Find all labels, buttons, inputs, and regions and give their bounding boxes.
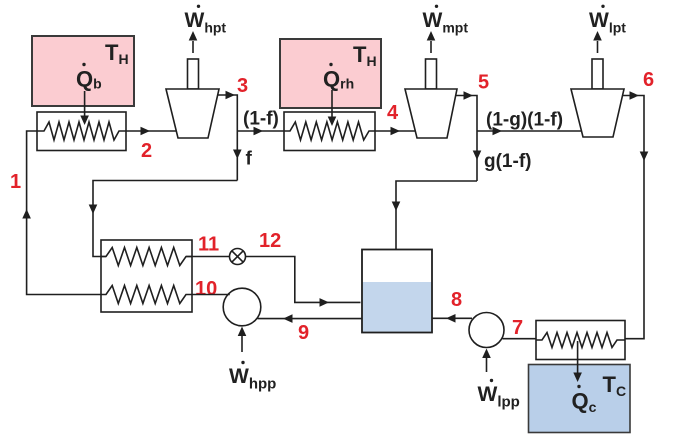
label (1-f) <box>243 109 279 130</box>
label (1-g)(1-f) <box>486 110 563 131</box>
label f <box>246 149 253 170</box>
arrow g(1-f) extraction downward <box>473 151 482 161</box>
svg-text:8: 8 <box>451 289 462 311</box>
arrow Qrh into reheater HX <box>328 90 337 126</box>
svg-text:f: f <box>246 149 253 170</box>
turbine LPT <box>571 59 624 137</box>
arrow f extraction downward <box>233 150 242 160</box>
svg-text:Whpt: Whpt <box>185 9 227 36</box>
wire state 3 (HPT exit) <box>218 91 238 181</box>
turbine MPT <box>405 59 457 138</box>
label Wlpt with dot <box>589 5 626 36</box>
wire (1-f) branch to reheater <box>237 127 284 136</box>
svg-text:11: 11 <box>198 234 219 256</box>
wire state 6 (LPT exit) <box>623 91 649 339</box>
label Whpt with dot <box>185 5 227 36</box>
wire state 4 (reheater to MPT) <box>375 127 415 136</box>
arrow work out LPT <box>593 31 602 53</box>
arrow work out HPT <box>189 31 198 53</box>
svg-text:4: 4 <box>387 102 399 124</box>
svg-text:Whpp: Whpp <box>229 365 276 393</box>
node 8 label <box>451 289 462 311</box>
node 11 label <box>198 234 219 256</box>
svg-text:2: 2 <box>141 140 152 162</box>
label Qb with dot <box>76 63 102 92</box>
svg-text:(1-g)(1-f): (1-g)(1-f) <box>486 110 563 131</box>
arrow work into pump LPP <box>482 349 491 373</box>
svg-text:Wmpt: Wmpt <box>423 9 469 36</box>
condenser heat exchanger <box>536 321 625 360</box>
node 1 label <box>10 171 21 193</box>
svg-text:(1-f): (1-f) <box>243 109 279 130</box>
node 12 label <box>259 230 281 252</box>
wire state 11 (FWH to trap valve) <box>186 256 230 258</box>
node 6 label <box>643 69 654 91</box>
boiler heat exchanger <box>37 112 126 151</box>
node 7 label <box>512 317 523 339</box>
label TH (reheater reservoir) <box>353 42 377 69</box>
arrow work into pump HPP <box>238 327 247 353</box>
cold reservoir box TC <box>529 365 631 433</box>
node 10 label <box>195 278 217 300</box>
svg-text:g(1-f): g(1-f) <box>484 151 531 172</box>
svg-text:5: 5 <box>478 72 489 94</box>
reheater heat exchanger <box>284 112 375 151</box>
node 2 label <box>141 140 152 162</box>
pump LPP <box>469 313 504 348</box>
wire state 2 (boiler to HPT) <box>126 127 177 136</box>
node 9 label <box>298 322 309 344</box>
node 3 label <box>237 75 248 97</box>
svg-text:3: 3 <box>237 75 248 97</box>
label Whpp with dot <box>229 361 276 393</box>
arrow Qb into boiler HX <box>80 91 89 125</box>
node 4 label <box>387 102 399 124</box>
wire state 9 (deaerator to pump HPP) <box>258 314 363 323</box>
wire g(1-f) extraction to deaerator <box>392 181 477 249</box>
label TH (boiler reservoir) <box>105 40 129 67</box>
turbine HPT <box>166 59 219 138</box>
closed feedwater heater <box>101 240 192 312</box>
wire state 1 (FWH to boiler) <box>22 131 101 295</box>
label Qrh with dot <box>323 63 354 92</box>
label Wlpp with dot <box>478 379 520 411</box>
svg-text:6: 6 <box>643 69 654 91</box>
wire state 5 (MPT exit) <box>456 91 478 181</box>
wire f extraction to FWH hot side <box>89 181 238 257</box>
label TC <box>603 372 627 399</box>
arrow work out MPT <box>427 31 436 53</box>
label Qc with dot <box>572 385 597 415</box>
label Wmpt with dot <box>423 5 469 36</box>
arrow Qc out of condenser <box>573 341 582 382</box>
svg-text:Wlpt: Wlpt <box>589 9 626 36</box>
wire (1-g)(1-f) to LPT <box>477 127 582 136</box>
svg-text:10: 10 <box>195 278 217 300</box>
node 5 label <box>478 72 489 94</box>
label g(1-f) <box>484 151 531 172</box>
svg-text:7: 7 <box>512 317 523 339</box>
wire state 12 (valve to deaerator) <box>246 257 361 307</box>
svg-text:Wlpp: Wlpp <box>478 383 520 411</box>
wire state 10 (pump HPP to FWH) <box>192 294 230 296</box>
svg-text:9: 9 <box>298 322 309 344</box>
svg-text:12: 12 <box>259 230 281 252</box>
hot reservoir box TH (boiler) <box>32 36 134 106</box>
wire state 7 (condenser to pump LPP) <box>503 338 537 340</box>
svg-text:1: 1 <box>10 171 21 193</box>
wire state 8 (pump LPP to deaerator) <box>432 314 472 323</box>
pump HPP <box>223 288 261 326</box>
trap valve <box>230 249 246 265</box>
deaerator open feedwater heater tank <box>362 250 432 333</box>
hot reservoir box TH (reheater) <box>280 39 381 108</box>
